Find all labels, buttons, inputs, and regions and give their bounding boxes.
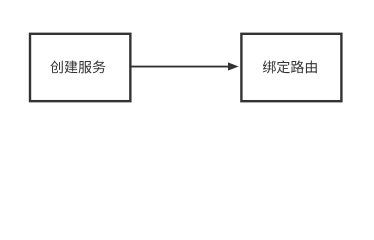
process box B1: 创建服务 (30, 34, 130, 101)
arrowhead (228, 62, 239, 70)
label 绑定路由 (263, 60, 317, 73)
wire arrow shaft (132, 66, 230, 68)
label 创建服务 (50, 60, 105, 73)
process box B2: 绑定路由 (241, 34, 341, 101)
